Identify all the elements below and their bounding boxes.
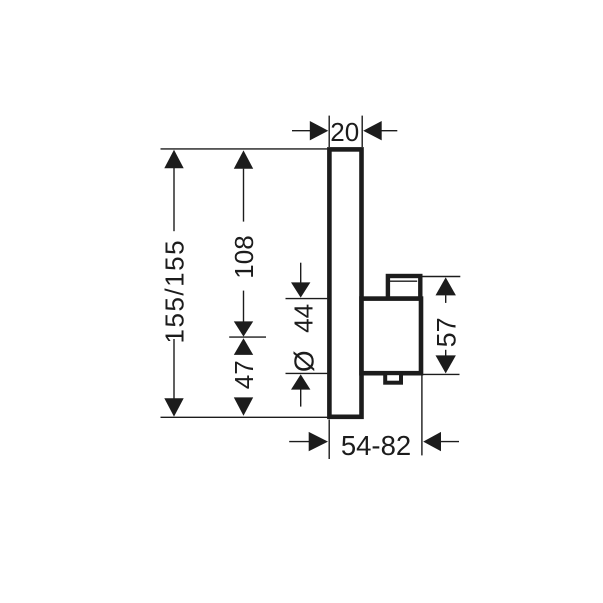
handle cap chamfer line xyxy=(390,280,417,282)
dim 155/155 line upper xyxy=(173,168,175,231)
dim 108 bottom arrow xyxy=(234,321,253,336)
dim 108 top arrow xyxy=(234,150,253,168)
dim 20 left arrow xyxy=(310,121,329,140)
plate outline (wall plate, side view) xyxy=(329,149,361,416)
dim 54-82 left tail xyxy=(289,441,309,443)
handle cap xyxy=(388,276,420,299)
extension line 57 bottom xyxy=(423,373,460,375)
extension line 57 top xyxy=(422,276,461,278)
extension line handle bottom left (y373.5) xyxy=(286,372,328,374)
dim 44 upper tail xyxy=(300,263,302,283)
dim 108 line lower xyxy=(243,291,245,323)
svg-text:Ø: Ø xyxy=(289,350,320,372)
extension line middle (handle axis, y337) xyxy=(229,336,266,338)
extension line handle top left (y298.5) xyxy=(286,298,328,300)
svg-text:108: 108 xyxy=(229,235,259,278)
dim 47 top arrow xyxy=(234,338,253,355)
svg-text:54-82: 54-82 xyxy=(341,430,411,461)
dim 20 left tail xyxy=(292,130,310,132)
extension line 54-82 left xyxy=(328,420,330,460)
extension line 20 right xyxy=(361,116,363,147)
dim 54-82 left arrow xyxy=(309,432,328,451)
dim 54-82 right tail xyxy=(441,441,459,443)
dim 20 right tail xyxy=(382,130,398,132)
handle body xyxy=(362,299,422,374)
dim 54-82 right arrow xyxy=(423,432,441,451)
dim 57 top arrow xyxy=(436,277,456,295)
dim 155/155 top arrow xyxy=(164,150,183,168)
svg-text:57: 57 xyxy=(431,317,461,347)
extension line 54-82 right xyxy=(421,374,423,455)
extension line 20 left xyxy=(328,116,330,147)
dim 57 lower tail xyxy=(445,350,447,357)
dim 57 bottom arrow xyxy=(436,355,456,373)
svg-text:155/155: 155/155 xyxy=(159,239,189,343)
dim 155/155 bottom arrow xyxy=(164,398,183,416)
dim 20 right arrow xyxy=(363,121,382,140)
extension line top (plate top, y150) xyxy=(161,148,328,150)
dim 108 line upper xyxy=(243,169,245,222)
dim 44 top arrow (points down) xyxy=(291,282,310,297)
svg-text:20: 20 xyxy=(330,117,359,147)
dim 57 upper tail xyxy=(445,295,447,303)
dim 47 bottom arrow xyxy=(234,397,253,415)
dim 155/155 line lower xyxy=(173,339,175,399)
svg-text:47: 47 xyxy=(229,360,259,389)
handle bottom tab xyxy=(385,373,401,383)
dim 44 bottom arrow (points up) xyxy=(291,374,310,389)
dim 44 lower tail xyxy=(300,389,302,407)
svg-text:44: 44 xyxy=(289,304,319,333)
extension line bottom (plate bottom, y417) xyxy=(161,416,328,418)
